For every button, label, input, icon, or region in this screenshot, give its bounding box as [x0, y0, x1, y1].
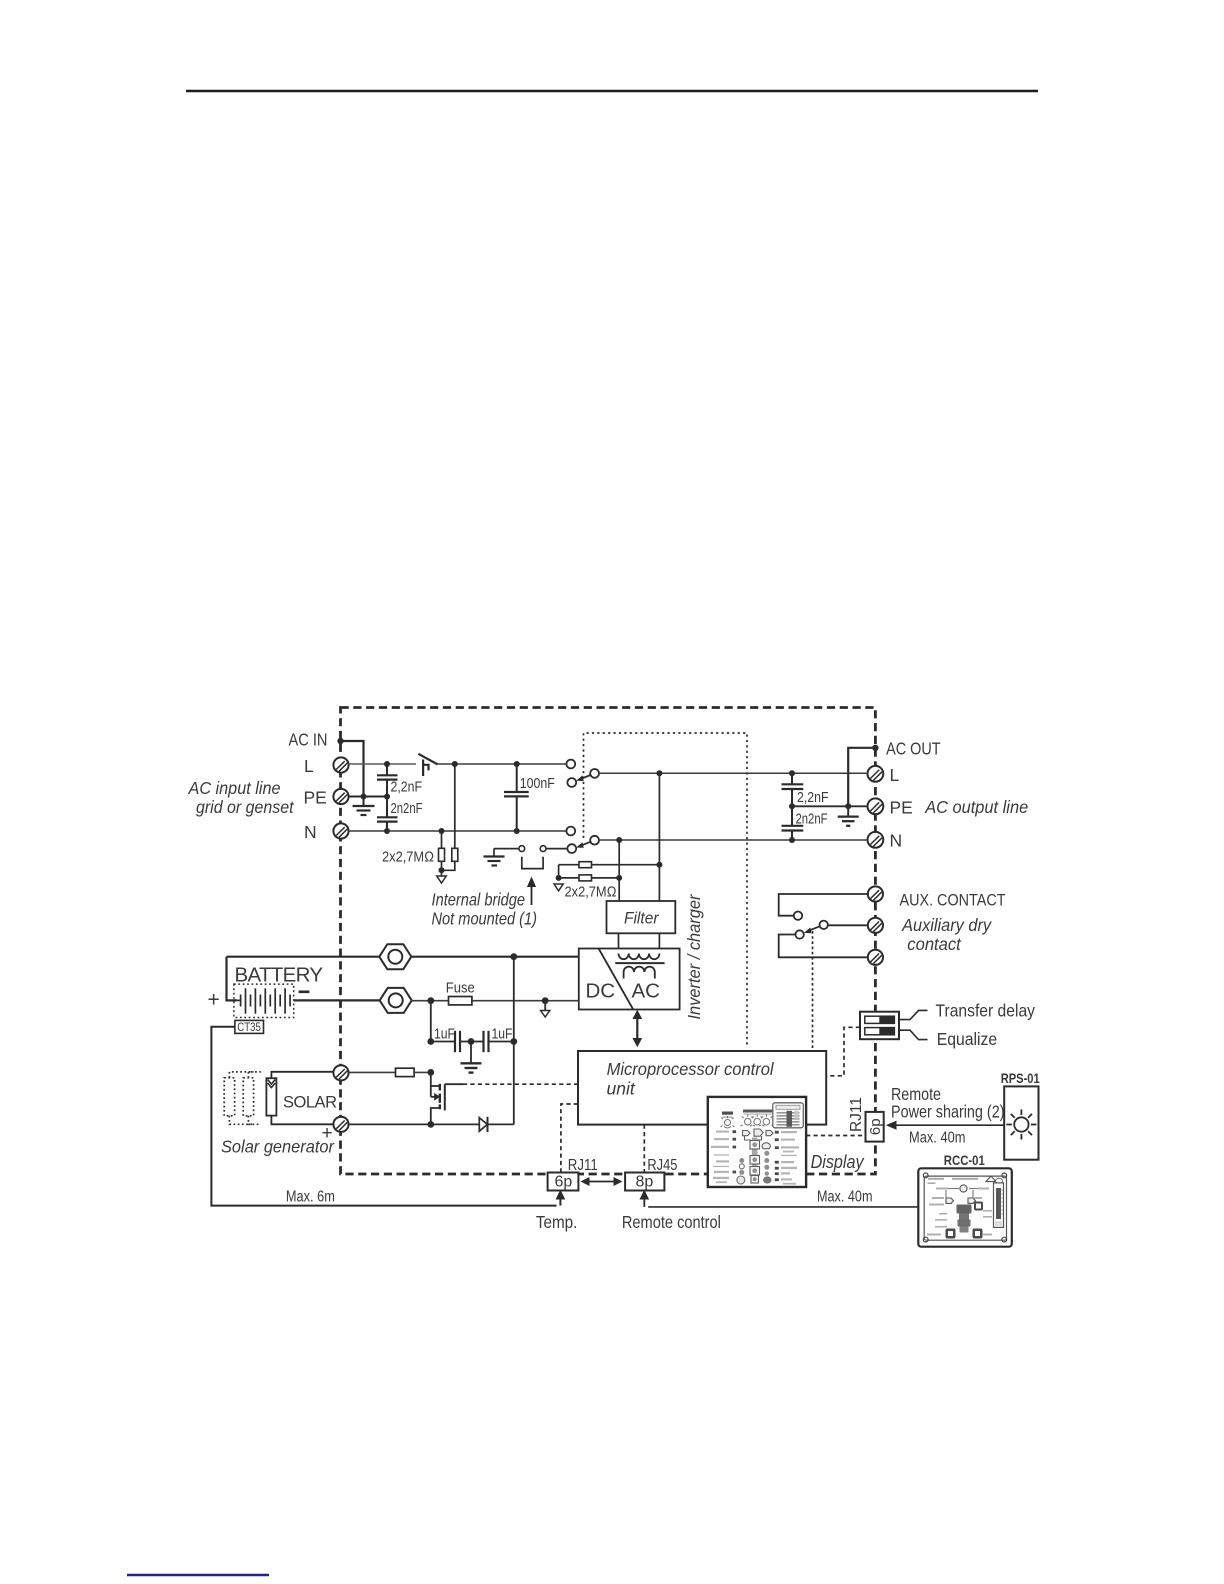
- svg-text:RPS-01: RPS-01: [1001, 1070, 1040, 1086]
- svg-text:1uF: 1uF: [492, 1026, 513, 1043]
- contact bridge left: [519, 846, 525, 852]
- capacitor 2n2nF output: [782, 806, 804, 840]
- svg-text:RJ45: RJ45: [647, 1157, 677, 1174]
- ground internal bridge: [484, 849, 505, 866]
- relay N moving contact: [590, 836, 599, 845]
- transformer secondary winding: [624, 967, 655, 979]
- wire battery plus right: [411, 956, 579, 958]
- terminal aux 1: [868, 886, 883, 901]
- RJ11 remote 6p box: [866, 1112, 884, 1142]
- bottom footnote rule: [127, 1574, 269, 1576]
- wire micro to RJ11 dashed: [561, 1104, 578, 1173]
- node AC IN: [337, 738, 343, 744]
- wire AC IN to PE junction: [341, 741, 364, 797]
- diode D1: [479, 1117, 487, 1132]
- node breaker out: [452, 761, 458, 767]
- node minus rail: [427, 997, 434, 1004]
- label minus: [299, 990, 310, 993]
- wire L out bus: [599, 772, 866, 774]
- resistor 2,7M input B: [452, 848, 458, 861]
- contact bridge right: [540, 846, 546, 852]
- wire output resistor rail: [558, 865, 560, 878]
- svg-text:PE: PE: [890, 798, 913, 818]
- svg-text:Solar generator: Solar generator: [221, 1137, 335, 1157]
- svg-text:L: L: [304, 756, 314, 776]
- svg-text:Power sharing (2): Power sharing (2): [891, 1102, 1005, 1122]
- node cap1 top: [384, 761, 390, 767]
- node battery plus rail: [510, 953, 517, 960]
- svg-text:AC input line: AC input line: [188, 778, 281, 798]
- svg-text:N: N: [304, 822, 317, 842]
- dc rail vertical: [513, 957, 515, 1125]
- svg-text:Transfer delay: Transfer delay: [936, 1001, 1036, 1021]
- ground PE input: [353, 797, 375, 816]
- node output resistor B: [616, 875, 622, 881]
- svg-text:Display: Display: [811, 1152, 865, 1172]
- node chassis: [542, 997, 549, 1004]
- wire breaker to relay L: [438, 763, 567, 765]
- wire aux T1: [779, 894, 868, 916]
- wire solar panel top: [271, 1072, 334, 1078]
- microprocessor control unit box: [578, 1051, 826, 1125]
- node PE out left: [789, 803, 795, 809]
- node PE cap junction: [384, 794, 390, 800]
- svg-text:Temp.: Temp.: [536, 1212, 578, 1232]
- svg-text:AC output line: AC output line: [924, 797, 1028, 817]
- node N out cap: [789, 837, 795, 843]
- wire filter to transformer right: [658, 933, 660, 953]
- RPS-01 box: [1004, 1086, 1038, 1159]
- ground arrow input resistors: [437, 870, 447, 883]
- wire N out bus: [599, 839, 866, 841]
- wire PE bus: [349, 796, 387, 798]
- wire bridge left: [494, 848, 519, 850]
- svg-text:N: N: [890, 831, 903, 851]
- svg-text:2x2,7MΩ: 2x2,7MΩ: [382, 850, 434, 866]
- node output resistor rail: [556, 875, 562, 881]
- wire L to breaker: [349, 763, 416, 765]
- wire solar panel bottom: [271, 1116, 334, 1125]
- aux moving contact: [820, 921, 828, 929]
- mosfet Q1: [431, 1072, 463, 1124]
- capacitor 100nF: [504, 764, 529, 831]
- temp sensor arrow: [556, 1190, 566, 1206]
- RJ11 6p box: [548, 1173, 579, 1191]
- wire breaker node down: [442, 764, 455, 870]
- aux contact lower: [795, 930, 803, 938]
- wire display to RJ11 dashed: [806, 1135, 865, 1137]
- relay N lower contact: [567, 844, 576, 853]
- node L out filter: [656, 770, 662, 776]
- svg-text:AC IN: AC IN: [289, 730, 328, 750]
- svg-text:Max. 40m: Max. 40m: [817, 1189, 873, 1206]
- wire filter to transformer left: [618, 933, 620, 953]
- terminal L out: [868, 766, 884, 782]
- wire solar minus bus: [349, 1123, 480, 1125]
- hexagon terminal battery plus: [379, 944, 411, 969]
- relay N fixed contact: [566, 827, 575, 836]
- svg-text:Filter: Filter: [624, 910, 660, 928]
- CT35 box: [235, 1020, 264, 1033]
- top rule: [186, 90, 1038, 93]
- wire bridge right: [546, 848, 567, 850]
- wire N bus: [349, 830, 567, 832]
- wire PE out: [792, 805, 867, 807]
- wire diode to rail: [488, 1123, 514, 1125]
- battery cells: [241, 988, 291, 1013]
- resistor 2,7M output A: [559, 862, 660, 868]
- leader equalize: [899, 1030, 928, 1039]
- capacitor 2,2nF output: [782, 773, 804, 806]
- svg-text:DC: DC: [586, 980, 616, 1003]
- relay L fixed contact: [566, 760, 575, 769]
- relay N blade: [576, 842, 591, 848]
- svg-text:Fuse: Fuse: [446, 980, 475, 997]
- wire battery minus: [294, 999, 380, 1001]
- capacitor 1uF left: [431, 1031, 471, 1052]
- wire mosfet gate dashed: [463, 1083, 578, 1085]
- dip switch equalize: [865, 1028, 895, 1035]
- terminal N out: [868, 832, 884, 848]
- svg-text:RJ11: RJ11: [568, 1157, 598, 1174]
- transformer primary winding: [619, 954, 660, 960]
- wire solar fuse to rail: [414, 1071, 431, 1073]
- relay L moving contact: [590, 769, 599, 778]
- aux contact upper: [794, 912, 802, 920]
- node L out cap: [789, 770, 795, 776]
- breaker blade: [418, 754, 437, 765]
- node 1uF left: [427, 1038, 434, 1045]
- wire N down to filter: [618, 840, 620, 902]
- svg-text:Inverter / charger: Inverter / charger: [684, 893, 704, 1019]
- dip switch box: [860, 1012, 899, 1039]
- svg-text:2,2nF: 2,2nF: [391, 780, 423, 796]
- svg-text:grid or genset: grid or genset: [196, 797, 295, 817]
- inverter DC/AC box: [579, 949, 680, 1010]
- node PE ground junction: [361, 794, 367, 800]
- solar ghost panel 2: [243, 1072, 261, 1124]
- terminal PE out: [868, 798, 884, 814]
- node PE out right: [845, 803, 851, 809]
- svg-text:Not mounted (1): Not mounted (1): [432, 909, 538, 929]
- svg-text:AC OUT: AC OUT: [886, 739, 941, 759]
- wire micro to dip switch dashed: [826, 1027, 860, 1076]
- svg-text:L: L: [890, 765, 900, 785]
- node cap2 bottom: [384, 828, 390, 834]
- wire CT35 to temp sensor: [211, 1027, 556, 1206]
- battery dotted box: [234, 984, 294, 1017]
- svg-text:1uF: 1uF: [434, 1026, 455, 1043]
- relay L lower contact: [567, 778, 576, 787]
- RPS sun symbol: [1006, 1110, 1036, 1140]
- capacitor 1uF right: [471, 1031, 514, 1052]
- svg-text:CT35: CT35: [237, 1022, 260, 1034]
- svg-text:100nF: 100nF: [520, 775, 555, 792]
- svg-text:unit: unit: [607, 1079, 636, 1099]
- capacitor 2,2nF input: [377, 764, 398, 797]
- wire battery plus: [227, 956, 380, 958]
- resistor 2,7M output B: [559, 875, 620, 881]
- terminal L in: [333, 757, 348, 772]
- node N resistor top: [439, 828, 445, 834]
- node 100nF top: [514, 761, 520, 767]
- wire aux T3: [779, 935, 868, 958]
- internal bridge arrow: [527, 877, 536, 906]
- svg-text:RJ11: RJ11: [848, 1097, 865, 1132]
- battery internal lead: [237, 999, 241, 1001]
- svg-text:Remote control: Remote control: [622, 1212, 721, 1232]
- hexagon terminal battery minus: [380, 988, 412, 1013]
- svg-text:2n2nF: 2n2nF: [796, 812, 828, 828]
- capacitor 2n2nF input: [377, 797, 398, 832]
- ground PE output: [838, 806, 859, 826]
- svg-text:contact: contact: [907, 934, 962, 954]
- relay L blade: [576, 775, 591, 781]
- wire RPS to RJ11 arrow: [886, 1121, 1004, 1130]
- node 1uF center: [468, 1038, 475, 1045]
- svg-text:SOLAR: SOLAR: [283, 1094, 337, 1112]
- solar panel symbol: [266, 1078, 276, 1115]
- wire aux relay control dashed: [812, 931, 814, 1051]
- display panel box: [708, 1097, 806, 1187]
- wire aux T2: [828, 924, 868, 926]
- terminal solar minus: [333, 1117, 348, 1132]
- wire micro to RJ45 dashed: [643, 1125, 645, 1173]
- svg-text:+: +: [208, 989, 220, 1012]
- wire remote control: [648, 1206, 918, 1208]
- terminal solar plus: [333, 1065, 348, 1080]
- terminal aux 3: [868, 950, 883, 965]
- wire solar plus to fuse: [349, 1071, 396, 1073]
- wire battery left drop: [227, 957, 238, 1001]
- svg-text:6p: 6p: [867, 1118, 884, 1135]
- inverter main enclosure dashed box: [341, 708, 876, 1175]
- svg-text:8p: 8p: [636, 1174, 654, 1191]
- transformer core: [615, 962, 664, 964]
- battery rail vertical: [430, 1001, 432, 1042]
- svg-text:Internal bridge: Internal bridge: [432, 890, 526, 910]
- svg-text:Microprocessor control: Microprocessor control: [607, 1059, 775, 1079]
- filter box: [607, 901, 676, 933]
- svg-text:Max. 6m: Max. 6m: [286, 1189, 335, 1206]
- svg-text:RCC-01: RCC-01: [944, 1152, 985, 1168]
- resistor 2,7M input A: [439, 831, 445, 870]
- chassis arrow: [541, 1001, 550, 1017]
- svg-text:AC: AC: [632, 980, 661, 1003]
- RCC-01 panel: [918, 1168, 1012, 1246]
- svg-text:BATTERY: BATTERY: [235, 964, 324, 987]
- node N out filter: [616, 837, 622, 843]
- node 1uF right: [510, 1038, 517, 1045]
- svg-text:Equalize: Equalize: [937, 1029, 998, 1049]
- inverter diagonal: [599, 949, 634, 1010]
- svg-text:2x2,7MΩ: 2x2,7MΩ: [565, 885, 617, 901]
- fuse solar: [396, 1068, 415, 1076]
- control bus arrow DC/AC to microprocessor: [632, 1010, 642, 1047]
- RJ45 8p box: [625, 1173, 664, 1191]
- display panel artwork: [711, 1103, 803, 1185]
- aux blade: [804, 926, 820, 933]
- wire L down to filter: [658, 773, 660, 902]
- node output resistor A: [656, 862, 662, 868]
- fuse battery: [449, 997, 472, 1005]
- remote control arrow: [640, 1190, 650, 1207]
- node resistor bottom: [439, 867, 445, 873]
- node solar minus mosfet: [427, 1121, 434, 1128]
- wire minus to fuse: [412, 1000, 449, 1002]
- internal bridge bracket: [522, 857, 543, 869]
- svg-text:AUX. CONTACT: AUX. CONTACT: [900, 892, 1006, 910]
- dip switch transfer delay: [865, 1016, 895, 1023]
- node solar plus rail: [427, 1069, 434, 1076]
- node AC OUT: [872, 745, 878, 751]
- svg-text:Auxiliary dry: Auxiliary dry: [901, 915, 992, 935]
- ground arrow output resistors: [554, 884, 563, 891]
- svg-text:2,2nF: 2,2nF: [797, 790, 829, 806]
- wire fuse to DC box: [472, 1000, 579, 1002]
- terminal N in: [333, 823, 348, 838]
- ground 1uF: [461, 1042, 482, 1073]
- breaker latch: [423, 760, 428, 777]
- svg-text:Max. 40m: Max. 40m: [909, 1130, 966, 1147]
- leader transfer delay: [899, 1010, 928, 1019]
- svg-text:6p: 6p: [555, 1174, 573, 1191]
- terminal PE in: [333, 789, 348, 804]
- inverter/charger inner dotted box: [584, 733, 748, 1047]
- terminal aux 2: [868, 918, 883, 933]
- svg-text:2n2nF: 2n2nF: [391, 801, 423, 817]
- arrow 6p to 8p: [581, 1177, 623, 1186]
- svg-text:PE: PE: [304, 788, 327, 808]
- node 100nF bottom: [514, 828, 520, 834]
- wire AC OUT to PE: [848, 748, 875, 807]
- solar ghost panel 1: [224, 1072, 253, 1124]
